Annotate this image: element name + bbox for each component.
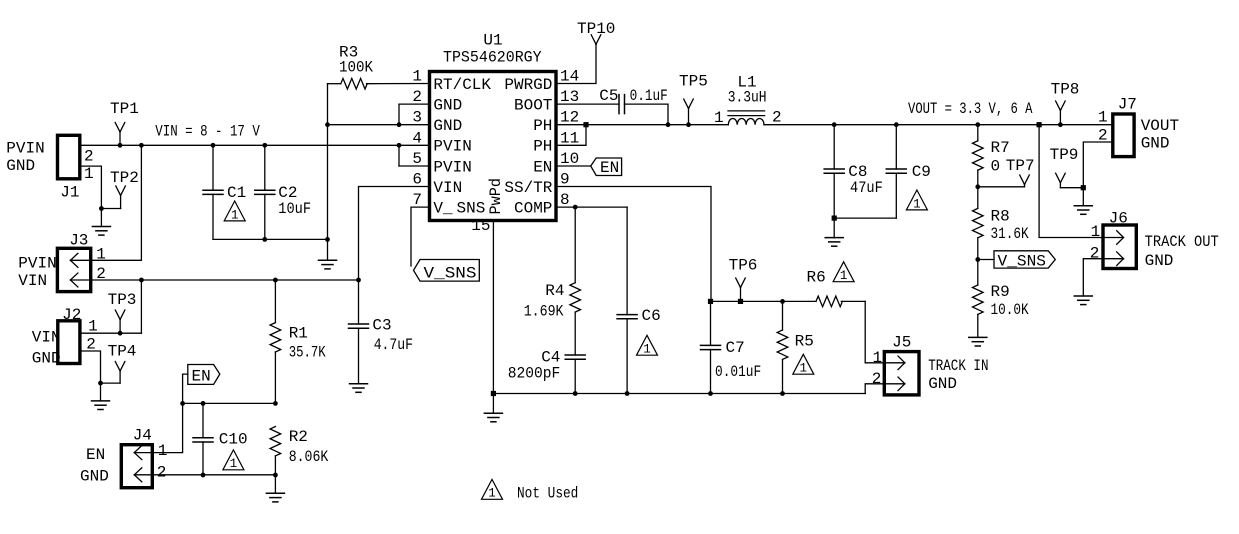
capacitor C7 0.01uF (701, 301, 762, 396)
inductor L1 3.3uH (728, 74, 767, 125)
svg-text:GND: GND (1141, 135, 1170, 153)
L1 pin numbers (714, 109, 782, 128)
svg-text:VOUT = 3.3 V, 6 A: VOUT = 3.3 V, 6 A (908, 100, 1033, 118)
ground below R9 (969, 337, 987, 346)
wire J3 pin1 up to VIN rail (91, 143, 144, 260)
wire J5 pin2 to bottom rail (865, 384, 884, 394)
svg-text:GND: GND (928, 375, 957, 393)
connector J1 (58, 135, 80, 201)
connector J5 (884, 334, 919, 395)
resistor R1 35.7K (270, 278, 326, 404)
svg-text:14: 14 (560, 68, 579, 86)
svg-text:C7: C7 (726, 339, 745, 357)
ground below C3 (350, 384, 368, 393)
svg-text:1: 1 (643, 343, 651, 357)
svg-text:VIN: VIN (32, 329, 61, 347)
wire SS node horizontal (708, 299, 816, 304)
test point TP5 (679, 73, 708, 125)
wire U1 pin6 VIN down to rail (359, 187, 430, 281)
U1 PwPd pad label (487, 178, 505, 215)
resistor R2 8.06K (270, 427, 329, 478)
svg-text:2: 2 (157, 464, 167, 482)
svg-text:1: 1 (1098, 109, 1108, 127)
svg-text:TPS54620RGY: TPS54620RGY (443, 49, 542, 67)
connector J4 (121, 427, 152, 488)
ground below C8 (825, 218, 843, 246)
wire R6 to J5 pin1 (865, 301, 884, 362)
wire U1 pin9 SS/TR (556, 187, 711, 302)
svg-text:TP9: TP9 (1050, 146, 1079, 164)
wire U1 pin7 to V_SNS flag (411, 207, 430, 266)
J3 pin numbers (96, 246, 106, 284)
svg-text:8: 8 (560, 191, 570, 209)
svg-text:TP4: TP4 (108, 343, 137, 361)
svg-text:10uF: 10uF (278, 200, 311, 218)
svg-text:1: 1 (158, 442, 168, 460)
svg-text:TP5: TP5 (679, 73, 708, 91)
J7 pin numbers (1098, 109, 1108, 145)
svg-text:6: 6 (412, 171, 422, 189)
wire bottom ground rail (491, 391, 865, 396)
J5 arrows (884, 356, 905, 391)
net flag V_SNS right (978, 251, 1056, 271)
svg-text:PVIN: PVIN (6, 140, 44, 158)
svg-text:PwPd: PwPd (487, 178, 505, 215)
test point TP2 (110, 169, 139, 209)
test point TP8 (1051, 81, 1080, 125)
svg-text:R1: R1 (289, 325, 308, 343)
node TP1 junction (118, 143, 123, 148)
U1 left pin labels (433, 76, 491, 218)
svg-text:TP1: TP1 (110, 100, 139, 118)
wire U1 pin2 GND stub (397, 104, 430, 127)
svg-text:GND: GND (433, 117, 462, 135)
svg-text:PWRGD: PWRGD (504, 76, 552, 94)
wire VIN rail (120, 144, 430, 146)
resistor R7 0 (973, 122, 1010, 187)
resistor R4 1.69K (524, 207, 581, 355)
svg-text:J6: J6 (1109, 210, 1128, 228)
test point TP7 (1006, 157, 1035, 187)
svg-text:10.0K: 10.0K (991, 301, 1029, 319)
J4 labels EN GND (80, 446, 109, 486)
svg-text:1: 1 (1091, 223, 1101, 241)
svg-text:3.3uH: 3.3uH (728, 89, 767, 107)
svg-text:EN: EN (192, 368, 211, 386)
svg-text:2: 2 (872, 370, 882, 388)
wire U1 pin11 PH tie (556, 122, 589, 145)
C1 not-used triangle (224, 201, 245, 222)
svg-text:15: 15 (471, 217, 490, 235)
svg-text:C5: C5 (599, 87, 618, 105)
svg-text:J2: J2 (62, 306, 81, 324)
svg-text:TP6: TP6 (729, 257, 758, 275)
svg-text:100K: 100K (339, 58, 373, 76)
wire J3 pin2 PVIN/VIN rail (91, 278, 361, 283)
J5 pin numbers (872, 349, 882, 388)
wire C8 C9 bottoms (832, 216, 897, 221)
capacitor C4 8200pF (508, 349, 586, 396)
svg-text:EN: EN (533, 158, 552, 176)
net flag EN at pin10 (556, 158, 622, 177)
wire C1 C2 bottoms to ground rail (213, 237, 330, 242)
svg-text:PVIN: PVIN (433, 158, 471, 176)
svg-text:C6: C6 (642, 307, 661, 325)
wire U1 pin15 PwPd down (492, 221, 494, 394)
wire U1 pin14 PWRGD to TP10 (556, 44, 596, 83)
svg-text:R9: R9 (991, 283, 1010, 301)
node J6 branch junction (1037, 122, 1042, 127)
J5 labels TRACK IN GND (928, 357, 988, 393)
svg-text:2: 2 (772, 109, 782, 127)
wire J2 pin1 (80, 331, 141, 336)
svg-text:U1: U1 (483, 32, 502, 50)
wire L1 to VOUT rail (764, 124, 1113, 126)
node TP8 junction (1058, 122, 1063, 127)
svg-text:V_SNS: V_SNS (424, 265, 477, 283)
capacitor C8 47uF (824, 122, 883, 218)
svg-text:1: 1 (714, 109, 724, 127)
U1 pin numbers 8-14 (560, 68, 579, 210)
resistor R6 (807, 269, 866, 307)
J4 pin numbers (157, 442, 168, 482)
svg-text:GND: GND (1145, 252, 1174, 270)
svg-text:1: 1 (840, 269, 848, 283)
svg-text:PVIN: PVIN (433, 138, 471, 156)
wire J4 pin1 to EN node (152, 403, 182, 452)
node V_SNS junction (975, 257, 980, 262)
U1 pin 15 number (471, 217, 490, 235)
IC U1 TPS54620RGY body (430, 32, 557, 221)
resistor R9 10.0K (973, 260, 1029, 338)
test point TP3 (108, 291, 137, 333)
svg-text:8200pF: 8200pF (508, 365, 561, 383)
svg-text:1: 1 (412, 68, 422, 86)
svg-text:J3: J3 (69, 232, 88, 250)
test point TP9 (1050, 146, 1084, 188)
J7 labels VOUT GND (1141, 117, 1179, 153)
svg-text:TP3: TP3 (108, 291, 137, 309)
capacitor C10 (193, 403, 248, 477)
test point TP10 (577, 20, 615, 44)
wire J4 pin2 ground rail (152, 474, 275, 476)
svg-text:5: 5 (412, 150, 422, 168)
J3 labels PVIN VIN (18, 255, 56, 291)
svg-text:13: 13 (560, 88, 579, 106)
ground at J6 pin2 (1074, 296, 1092, 305)
svg-text:4.7uF: 4.7uF (374, 336, 413, 354)
node TP6 junction (738, 299, 743, 304)
svg-text:0: 0 (991, 158, 1001, 176)
ground at bottom rail (484, 394, 502, 422)
connector J2 (58, 306, 82, 364)
svg-text:VIN: VIN (433, 179, 462, 197)
J3 arrows (70, 253, 90, 287)
svg-text:VOUT: VOUT (1141, 117, 1179, 135)
svg-text:GND: GND (433, 96, 462, 114)
svg-text:4: 4 (412, 129, 422, 147)
svg-text:1: 1 (873, 349, 883, 367)
svg-text:9: 9 (560, 171, 570, 189)
J2 pin numbers (86, 318, 97, 354)
svg-text:3: 3 (412, 109, 422, 127)
wire J7 pin2 to ground (1081, 142, 1113, 190)
svg-text:1: 1 (231, 208, 239, 222)
R5 not-used triangle (793, 354, 814, 375)
svg-text:TRACK OUT: TRACK OUT (1145, 233, 1219, 251)
wire PH rail pin12 to L1 (556, 124, 728, 126)
capacitor C5 0.1uF (599, 87, 668, 114)
ground for input section (319, 260, 337, 269)
svg-text:C10: C10 (219, 431, 248, 449)
svg-text:8.06K: 8.06K (289, 448, 329, 466)
svg-text:31.6K: 31.6K (991, 225, 1029, 243)
svg-text:V_: V_ (433, 199, 453, 217)
svg-text:TP7: TP7 (1006, 157, 1035, 175)
svg-text:47uF: 47uF (850, 179, 883, 197)
connector J6 (1103, 210, 1136, 269)
legend text Not Used (517, 485, 578, 503)
node TP5 junction (686, 122, 691, 127)
wire EN flag to EN node (180, 374, 188, 406)
svg-text:EN: EN (600, 159, 619, 177)
C9 not-used triangle (906, 190, 927, 211)
svg-text:EN: EN (86, 446, 105, 464)
svg-text:11: 11 (560, 129, 579, 147)
svg-text:2: 2 (1090, 245, 1100, 263)
wire EN node horizontal (183, 401, 278, 406)
wire GND vertical from pins 2,3 (325, 84, 330, 261)
connector J3 (57, 232, 90, 292)
svg-text:PVIN: PVIN (18, 255, 56, 273)
svg-text:SNS: SNS (457, 199, 486, 217)
svg-text:GND: GND (6, 157, 35, 175)
svg-text:GND: GND (32, 350, 61, 368)
resistor R5 (777, 301, 814, 396)
svg-text:C1: C1 (227, 184, 246, 202)
test point TP1 (110, 100, 139, 145)
net flag V_SNS at pin7 (414, 260, 480, 283)
svg-text:7: 7 (412, 191, 422, 209)
capacitor C2 10uF (255, 143, 311, 239)
resistor R3 100K (328, 44, 430, 89)
svg-text:1: 1 (230, 457, 238, 471)
ground at J4 pin2 (266, 475, 284, 502)
C6 not-used triangle (637, 335, 658, 356)
svg-text:10: 10 (560, 150, 579, 168)
svg-text:TP10: TP10 (577, 20, 615, 38)
J2 labels VIN GND (32, 329, 61, 368)
wire U1 pin13 BOOT to C5 (556, 103, 619, 105)
capacitor C3 4.7uF (349, 280, 414, 384)
capacitor C6 (617, 207, 661, 396)
label VOUT = 3.3 V, 6 A (908, 100, 1033, 118)
svg-text:TP2: TP2 (110, 169, 139, 187)
svg-text:PH: PH (533, 138, 552, 156)
svg-text:J5: J5 (892, 334, 911, 352)
svg-text:1: 1 (488, 487, 496, 501)
R6 not-used triangle (833, 262, 854, 283)
svg-text:1: 1 (84, 165, 94, 183)
J6 labels TRACK OUT GND (1145, 233, 1219, 270)
svg-text:RT/CLK: RT/CLK (433, 76, 491, 94)
wire J6 pin2 to ground (1083, 259, 1103, 296)
svg-text:1: 1 (913, 197, 921, 211)
J1 labels PVIN GND (6, 140, 44, 176)
resistor R8 31.6K (973, 187, 1029, 260)
J6 pin numbers (1090, 223, 1101, 263)
svg-text:TRACK IN: TRACK IN (928, 357, 988, 375)
svg-text:2: 2 (412, 88, 422, 106)
svg-text:PH: PH (533, 117, 552, 135)
capacitor C9 (886, 122, 931, 218)
svg-text:1: 1 (800, 362, 808, 376)
svg-text:R6: R6 (807, 269, 826, 287)
svg-text:GND: GND (80, 468, 109, 486)
wire down to J2 pin1 (140, 280, 142, 333)
test point TP4 (108, 343, 137, 384)
svg-text:C3: C3 (372, 317, 391, 335)
wire U1 pin3 GND (328, 124, 430, 126)
svg-text:J1: J1 (60, 184, 79, 202)
svg-text:VIN = 8 - 17 V: VIN = 8 - 17 V (155, 123, 260, 141)
legend not-used triangle (482, 479, 503, 500)
svg-text:J7: J7 (1118, 96, 1137, 114)
connector J7 (1113, 96, 1137, 157)
svg-text:R5: R5 (795, 333, 814, 351)
svg-text:R2: R2 (289, 428, 308, 446)
svg-text:Not Used: Not Used (517, 485, 578, 503)
svg-text:COMP: COMP (514, 199, 552, 217)
wire U1 pin8 COMP node (556, 205, 627, 210)
svg-text:BOOT: BOOT (514, 96, 552, 114)
wire J1 pin1 to TP2/ground (80, 166, 121, 211)
C10 not-used triangle (223, 450, 244, 471)
svg-text:VIN: VIN (18, 272, 47, 290)
ground at J7 pin2 (1074, 188, 1092, 215)
svg-text:0.01uF: 0.01uF (715, 363, 761, 381)
svg-text:C9: C9 (912, 163, 931, 181)
net flag EN near J4 (188, 365, 220, 386)
J4 arrows (134, 446, 152, 482)
svg-text:R4: R4 (545, 282, 564, 300)
test point TP6 (729, 257, 758, 302)
svg-text:R8: R8 (991, 208, 1010, 226)
svg-text:R7: R7 (991, 139, 1010, 157)
svg-text:V_SNS: V_SNS (998, 253, 1047, 271)
node R7/R8 junction (975, 184, 980, 189)
ground at J1 pin1 (92, 209, 110, 236)
U1 right pin labels (504, 76, 552, 218)
capacitor C1 (203, 143, 246, 239)
label VIN = 8 - 17 V (155, 123, 260, 141)
ground at J2 pin2 (92, 383, 110, 409)
wire C5 to PH node (625, 104, 671, 127)
svg-text:SS/TR: SS/TR (504, 179, 552, 197)
svg-text:12: 12 (560, 109, 579, 127)
wire to TP7 (978, 186, 1025, 188)
svg-text:2: 2 (84, 148, 94, 166)
svg-text:TP8: TP8 (1051, 81, 1080, 99)
wire U1 pin4/pin5 PVIN tie (397, 143, 430, 166)
svg-text:0.1uF: 0.1uF (630, 87, 668, 105)
wire J2 pin2 to ground (80, 351, 120, 386)
J6 arrows (1103, 231, 1124, 266)
svg-text:1.69K: 1.69K (524, 303, 564, 321)
wire VOUT to J6 pin1 (1039, 125, 1103, 238)
svg-text:J4: J4 (133, 427, 152, 445)
J1 pin numbers (84, 148, 94, 183)
U1 pin numbers 1-7 (412, 68, 422, 210)
wire J1 pin2 to VIN rail (80, 144, 120, 146)
svg-text:35.7K: 35.7K (289, 344, 326, 362)
